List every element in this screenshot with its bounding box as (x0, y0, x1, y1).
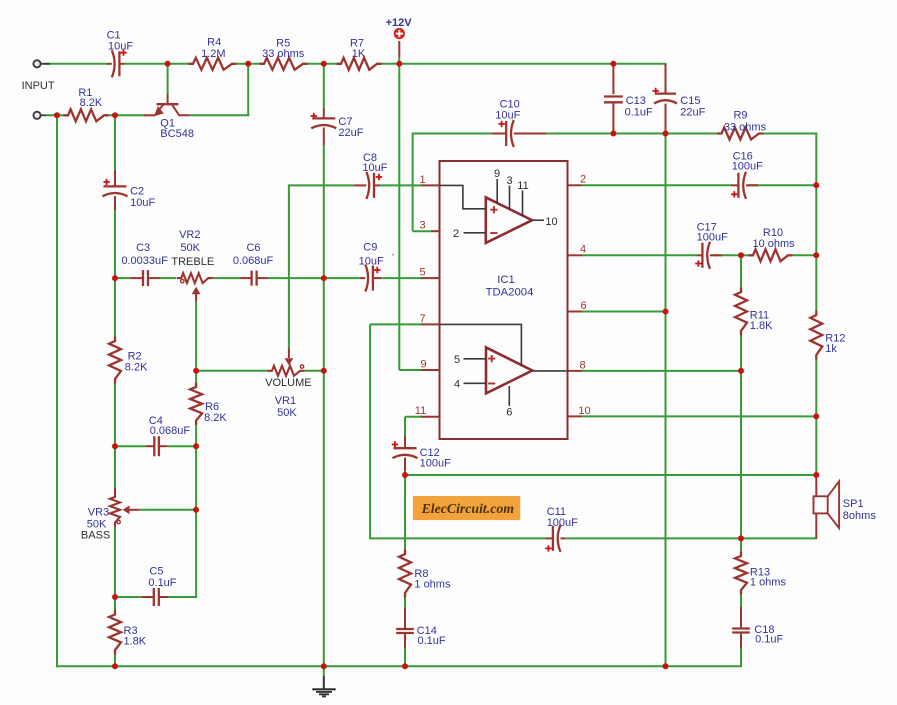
svg-text:0.0033uF: 0.0033uF (121, 255, 168, 267)
op-amp A1 plus input (490, 206, 497, 213)
svg-text:100uF: 100uF (732, 160, 763, 172)
logo ElecCircuit.com (413, 496, 520, 520)
capacitor C15 (655, 92, 676, 94)
resistor R10 (749, 249, 793, 261)
wire +12V column to top rail (398, 57, 400, 64)
wire treble line C6 to junction (268, 277, 324, 279)
svg-text:3: 3 (419, 220, 425, 232)
capacitor C17 (701, 243, 703, 268)
IC pin 3 stub (431, 230, 440, 232)
wire top rail R4 to R5 (236, 63, 260, 65)
svg-text:1 ohms: 1 ohms (750, 576, 787, 588)
svg-text:6: 6 (506, 407, 512, 419)
op-amp A2 output wire pin8 (532, 370, 567, 372)
wire C12 to output rail junction (404, 471, 406, 475)
wire C11 line left (369, 537, 546, 539)
wire R11 to pin8 junction (740, 331, 742, 371)
resistor R2 (109, 337, 121, 384)
resistor R8 (399, 550, 411, 598)
wire C16 to right rail (748, 184, 816, 186)
svg-text:100uF: 100uF (420, 458, 451, 470)
junction (663, 663, 669, 669)
svg-text:+12V: +12V (386, 17, 413, 29)
junction (663, 131, 669, 137)
resistor R5 (260, 58, 308, 70)
svg-text:10: 10 (545, 216, 557, 228)
svg-text:10uF: 10uF (130, 197, 155, 209)
resistor R9 (717, 128, 764, 140)
op-amp A1 internal wire pin1 (440, 185, 486, 208)
svg-text:10uF: 10uF (108, 40, 133, 52)
svg-text:TDA2004: TDA2004 (486, 286, 534, 298)
wire pin11 corner (405, 416, 422, 418)
svg-text:5: 5 (419, 267, 425, 279)
wire R2 column (114, 278, 116, 341)
capacitor C3 (143, 270, 148, 286)
wire pin4 line (582, 254, 697, 256)
svg-text:5: 5 (454, 354, 460, 366)
junction (813, 182, 819, 188)
svg-text:BASS: BASS (81, 530, 110, 542)
wire C2 column lower to treble line (114, 210, 116, 278)
junction (193, 443, 199, 449)
resistor R3 (109, 610, 121, 655)
svg-text:50K: 50K (180, 242, 200, 254)
svg-text:33 ohms: 33 ohms (262, 48, 305, 60)
capacitor C9 (372, 266, 374, 291)
svg-text:0.068uF: 0.068uF (233, 255, 274, 267)
wire pin6 line (582, 311, 666, 313)
wire volume line junction to VR1 (196, 370, 268, 372)
wire volume line VR1 to junction (304, 370, 324, 372)
wire output rail (405, 474, 816, 476)
wire right rail upper (815, 134, 817, 312)
capacitor C6 (252, 271, 257, 286)
junction (321, 663, 327, 669)
IC pin 1 stub (421, 184, 440, 186)
wire C4 line left (115, 445, 146, 447)
wire pin3 loop horizontal (413, 230, 431, 232)
wire treble line VR2 to C6 (213, 277, 240, 279)
IC pin 9 stub (421, 369, 440, 371)
svg-text:7: 7 (419, 313, 425, 325)
svg-text:ElecCircuit.com: ElecCircuit.com (421, 501, 515, 516)
wire pin2 line (582, 184, 731, 186)
wire C5 line left (115, 596, 142, 598)
svg-text:8ohms: 8ohms (843, 510, 877, 522)
junction (738, 535, 744, 541)
junction (738, 252, 744, 258)
junction (396, 61, 402, 67)
wire C18 leads (740, 607, 742, 628)
capacitor C10 (505, 121, 507, 146)
wire top rail C1 to R4 (124, 63, 189, 65)
wire treble line C3 to VR2 (160, 277, 176, 279)
op-amp A2 ground stub 6 (508, 386, 510, 406)
wire input2 stub (41, 114, 51, 116)
junction (193, 368, 199, 374)
op-amp A2 minus input (488, 383, 495, 385)
IC pin 5 stub (421, 277, 440, 279)
input terminal J1 top (33, 60, 40, 67)
svg-text:R9: R9 (733, 109, 747, 121)
wire +12V column to pin9 corner (398, 64, 400, 370)
resistor R4 (189, 58, 237, 70)
svg-text:C6: C6 (246, 242, 260, 254)
op-amp A1 triangle (486, 197, 532, 243)
wire VR3 wiper line (139, 509, 196, 511)
op-amp A1 output wire (532, 219, 544, 221)
junction (112, 594, 118, 600)
junction (738, 368, 744, 374)
svg-text:3: 3 (506, 175, 512, 187)
IC pin 2 stub (568, 184, 583, 186)
wire treble line junction to C3 (115, 277, 130, 279)
wire C8 corner column down to VR1 arrow (288, 185, 290, 348)
svg-text:4: 4 (454, 378, 460, 390)
wire treble junction to volume junction (323, 278, 325, 371)
resistor R12 (810, 311, 822, 360)
svg-text:1.2M: 1.2M (201, 48, 225, 60)
resistor R6 (190, 383, 202, 426)
resistor R13 (735, 552, 747, 595)
op-amp A2 triangle (486, 347, 532, 393)
svg-text:IC1: IC1 (497, 274, 515, 286)
op-amp A2 feedback wire pin7 (440, 324, 522, 366)
capacitor C5 (154, 588, 159, 606)
svg-text:11: 11 (415, 405, 426, 417)
wire C17 to R10 junction (712, 254, 741, 256)
power +12V (394, 28, 405, 39)
junction (54, 112, 60, 118)
svg-text:8.2K: 8.2K (80, 97, 103, 109)
svg-text:9: 9 (420, 358, 426, 370)
svg-text:50K: 50K (277, 407, 297, 419)
wire pin10 line (582, 415, 816, 417)
op-amp A2 input wire 5 (464, 358, 487, 360)
junction (112, 443, 118, 449)
wire C15 junction to R9 (666, 133, 718, 135)
wire R2 to C4 line (114, 379, 116, 446)
svg-text:10uF: 10uF (359, 256, 384, 268)
wire pin7 line (370, 323, 422, 325)
wire C10 line right to C13 junction (528, 133, 613, 135)
junction (321, 368, 327, 374)
ground symbol (312, 676, 335, 696)
svg-text:10 ohms: 10 ohms (752, 238, 795, 250)
wire R9 to right rail corner (763, 133, 817, 135)
svg-text:1.8K: 1.8K (750, 320, 773, 332)
IC pin 7 stub (421, 323, 440, 325)
potentiometer VR3 bass (110, 493, 120, 528)
junction (610, 131, 616, 137)
svg-text:2: 2 (453, 228, 459, 240)
op-amp A1 internal wire 2 (464, 232, 486, 234)
wire pin11 to C12 (404, 417, 406, 436)
wire C9 to IC pin5 (381, 277, 422, 279)
svg-text:1.8K: 1.8K (124, 635, 147, 647)
wire bottom rail (56, 665, 742, 667)
svg-text:C15: C15 (680, 95, 700, 107)
capacitor C7 (312, 117, 335, 119)
wire C5 line right (168, 596, 196, 598)
capacitor C8 (373, 173, 375, 198)
junction (610, 61, 616, 67)
capacitor C16 (737, 173, 739, 198)
wire VR3 to C5 line (114, 523, 116, 598)
wire C11 line to speaker corner (741, 537, 817, 539)
svg-text:100uF: 100uF (697, 231, 728, 243)
svg-text:1 ohms: 1 ohms (414, 578, 451, 590)
wire top rail R5 to R7 (307, 63, 337, 65)
svg-text:R2: R2 (128, 350, 142, 362)
capacitor C14 (396, 629, 414, 633)
svg-text:8.2K: 8.2K (204, 412, 227, 424)
wire C12 leads (404, 436, 406, 448)
wire pin8 line (582, 370, 741, 372)
svg-text:INPUT: INPUT (22, 80, 55, 92)
wire collector corner up to top rail (247, 64, 249, 116)
wire C10 line left (412, 133, 492, 135)
wire R8 column from output rail (404, 475, 406, 554)
junction (402, 663, 408, 669)
svg-text:C9: C9 (363, 242, 377, 254)
wire R10 junction to R10 (741, 254, 749, 256)
capacitor C1 (118, 51, 120, 76)
junction (321, 61, 327, 67)
svg-text:6: 6 (580, 300, 586, 312)
wire VR2 wiper column (195, 294, 197, 302)
svg-text:33 ohms: 33 ohms (724, 122, 767, 134)
junction (813, 252, 819, 258)
wire C8 to pin1 (380, 184, 422, 186)
wire R8 to C14 (404, 593, 406, 608)
wire pin9 corner to stub (399, 369, 422, 371)
IC pin 6 stub (568, 311, 583, 313)
wire R11 column upper (740, 255, 742, 292)
wire speaker bottom lead (815, 513, 817, 538)
junction (321, 275, 327, 281)
wire C15 column down to bottom rail (665, 134, 667, 667)
resistor R11 (735, 288, 747, 336)
wire C2 column upper (114, 115, 116, 170)
capacitor C2 (104, 185, 127, 187)
wire C7 column to treble junction (323, 145, 325, 278)
wire C7 leads (323, 108, 325, 119)
svg-text:BC548: BC548 (160, 128, 194, 140)
svg-text:R4: R4 (207, 36, 221, 48)
wire C5 line to R3 (114, 597, 116, 615)
wire pin7 column down (369, 324, 371, 538)
IC pin 4 stub (568, 254, 583, 256)
svg-text:1K: 1K (352, 48, 366, 60)
junction (245, 61, 251, 67)
wire VR3 wiper junction to C5 corner (195, 510, 197, 598)
IC IC1 TDA2004 body (440, 161, 568, 439)
svg-text:C5: C5 (149, 565, 163, 577)
wire top rail R7 to C15 corner (381, 63, 667, 65)
capacitor C13 (604, 97, 623, 103)
svg-text:0.1uF: 0.1uF (148, 577, 176, 589)
wire R3 to bottom rail (114, 650, 116, 666)
svg-text:0.1uF: 0.1uF (418, 635, 446, 647)
op-amp A1 minus input (490, 232, 497, 234)
wire top rail input to C1 (44, 63, 107, 65)
wire R6 column (195, 371, 197, 387)
capacitor C11 (552, 526, 554, 551)
svg-text:VR1: VR1 (275, 395, 296, 407)
svg-text:10: 10 (578, 405, 590, 417)
wire C4 line to VR3 (114, 446, 116, 488)
wire R6 to VR3 wiper junction (195, 446, 197, 510)
wire pin8 junction down to C11 line junction (740, 371, 742, 539)
svg-text:22uF: 22uF (338, 127, 363, 139)
svg-text:11: 11 (517, 180, 528, 192)
wire C4 line right (167, 445, 196, 447)
svg-text:9: 9 (494, 168, 500, 180)
svg-text:4: 4 (580, 244, 586, 256)
svg-text:22uF: 22uF (680, 107, 705, 119)
wire treble line junction to C9 (324, 277, 360, 279)
wire Q1 base column (167, 64, 169, 94)
svg-text:10uF: 10uF (495, 109, 520, 121)
potentiometer VR2 treble (177, 273, 213, 283)
svg-text:10uF: 10uF (362, 162, 387, 174)
svg-text:8: 8 (579, 359, 585, 371)
wire C13 leads (612, 64, 614, 94)
svg-text:0.068uF: 0.068uF (150, 425, 191, 437)
svg-text:2: 2 (580, 174, 586, 186)
speck artifact (392, 254, 394, 256)
transistor Q1 BC548 (144, 104, 190, 115)
wire C14 leads (404, 608, 406, 629)
wire C8 line horizontal (288, 184, 354, 186)
svg-text:C13: C13 (626, 95, 646, 107)
capacitor C12 (394, 447, 417, 449)
wire left rail x57 down (56, 115, 58, 667)
svg-text:VOLUME: VOLUME (265, 377, 311, 389)
op-amp A1 top stubs 9 3 11 (497, 179, 522, 216)
svg-text:8.2K: 8.2K (125, 362, 148, 374)
wire C15 leads (665, 64, 667, 94)
op-amp A2 input wire 4 (464, 382, 487, 384)
IC pin 10 stub (568, 415, 583, 417)
wire R10 to right rail (793, 254, 817, 256)
svg-text:1: 1 (419, 174, 425, 186)
wire C11 line mid (565, 537, 741, 539)
wire R1 to Q1 emitter (108, 114, 145, 116)
wire C18 to bottom rail (740, 648, 742, 666)
junction (813, 413, 819, 419)
junction (402, 472, 408, 478)
wire speaker top lead (815, 475, 817, 496)
svg-text:0.1uF: 0.1uF (625, 107, 653, 119)
wire VR1 arrow lead (288, 349, 290, 359)
svg-text:1k: 1k (825, 343, 837, 355)
wire C2 leads (114, 170, 116, 186)
svg-text:SP1: SP1 (843, 498, 864, 510)
speaker SP1 (814, 481, 840, 528)
wire right rail R12 to speaker dot (815, 359, 817, 475)
svg-text:VR3: VR3 (88, 507, 109, 519)
resistor R1 (64, 109, 109, 121)
capacitor C18 (732, 629, 750, 633)
wire C7 column top (323, 64, 325, 108)
input terminal J2 bottom (33, 112, 40, 119)
wire input2 to R1 (46, 114, 64, 116)
junction (112, 663, 118, 669)
resistor R7 (337, 58, 382, 70)
wire Q1 collector to corner (190, 114, 250, 116)
IC pin 11 stub (421, 416, 440, 418)
capacitor C4 (154, 436, 159, 456)
junction (112, 112, 118, 118)
junction (112, 275, 118, 281)
wire C13 junction to C15 junction (613, 133, 665, 135)
op-amp A2 plus input (488, 355, 495, 362)
junction (813, 472, 819, 478)
junction (165, 61, 171, 67)
svg-text:TREBLE: TREBLE (171, 256, 214, 268)
junction (663, 309, 669, 315)
potentiometer VR1 volume (268, 366, 305, 376)
wire C14 to bottom rail (404, 648, 406, 666)
IC pin 8 stub (568, 370, 583, 372)
wire pin3 loop vertical (412, 134, 414, 232)
svg-text:VR2: VR2 (179, 229, 200, 241)
svg-text:100uF: 100uF (547, 517, 578, 529)
wire R13 column (740, 538, 742, 556)
wire volume junction down to ground rail (323, 371, 325, 667)
svg-text:0.1uF: 0.1uF (755, 634, 783, 646)
junction (193, 507, 199, 513)
svg-text:C3: C3 (136, 242, 150, 254)
wire +12V lead (398, 41, 400, 57)
